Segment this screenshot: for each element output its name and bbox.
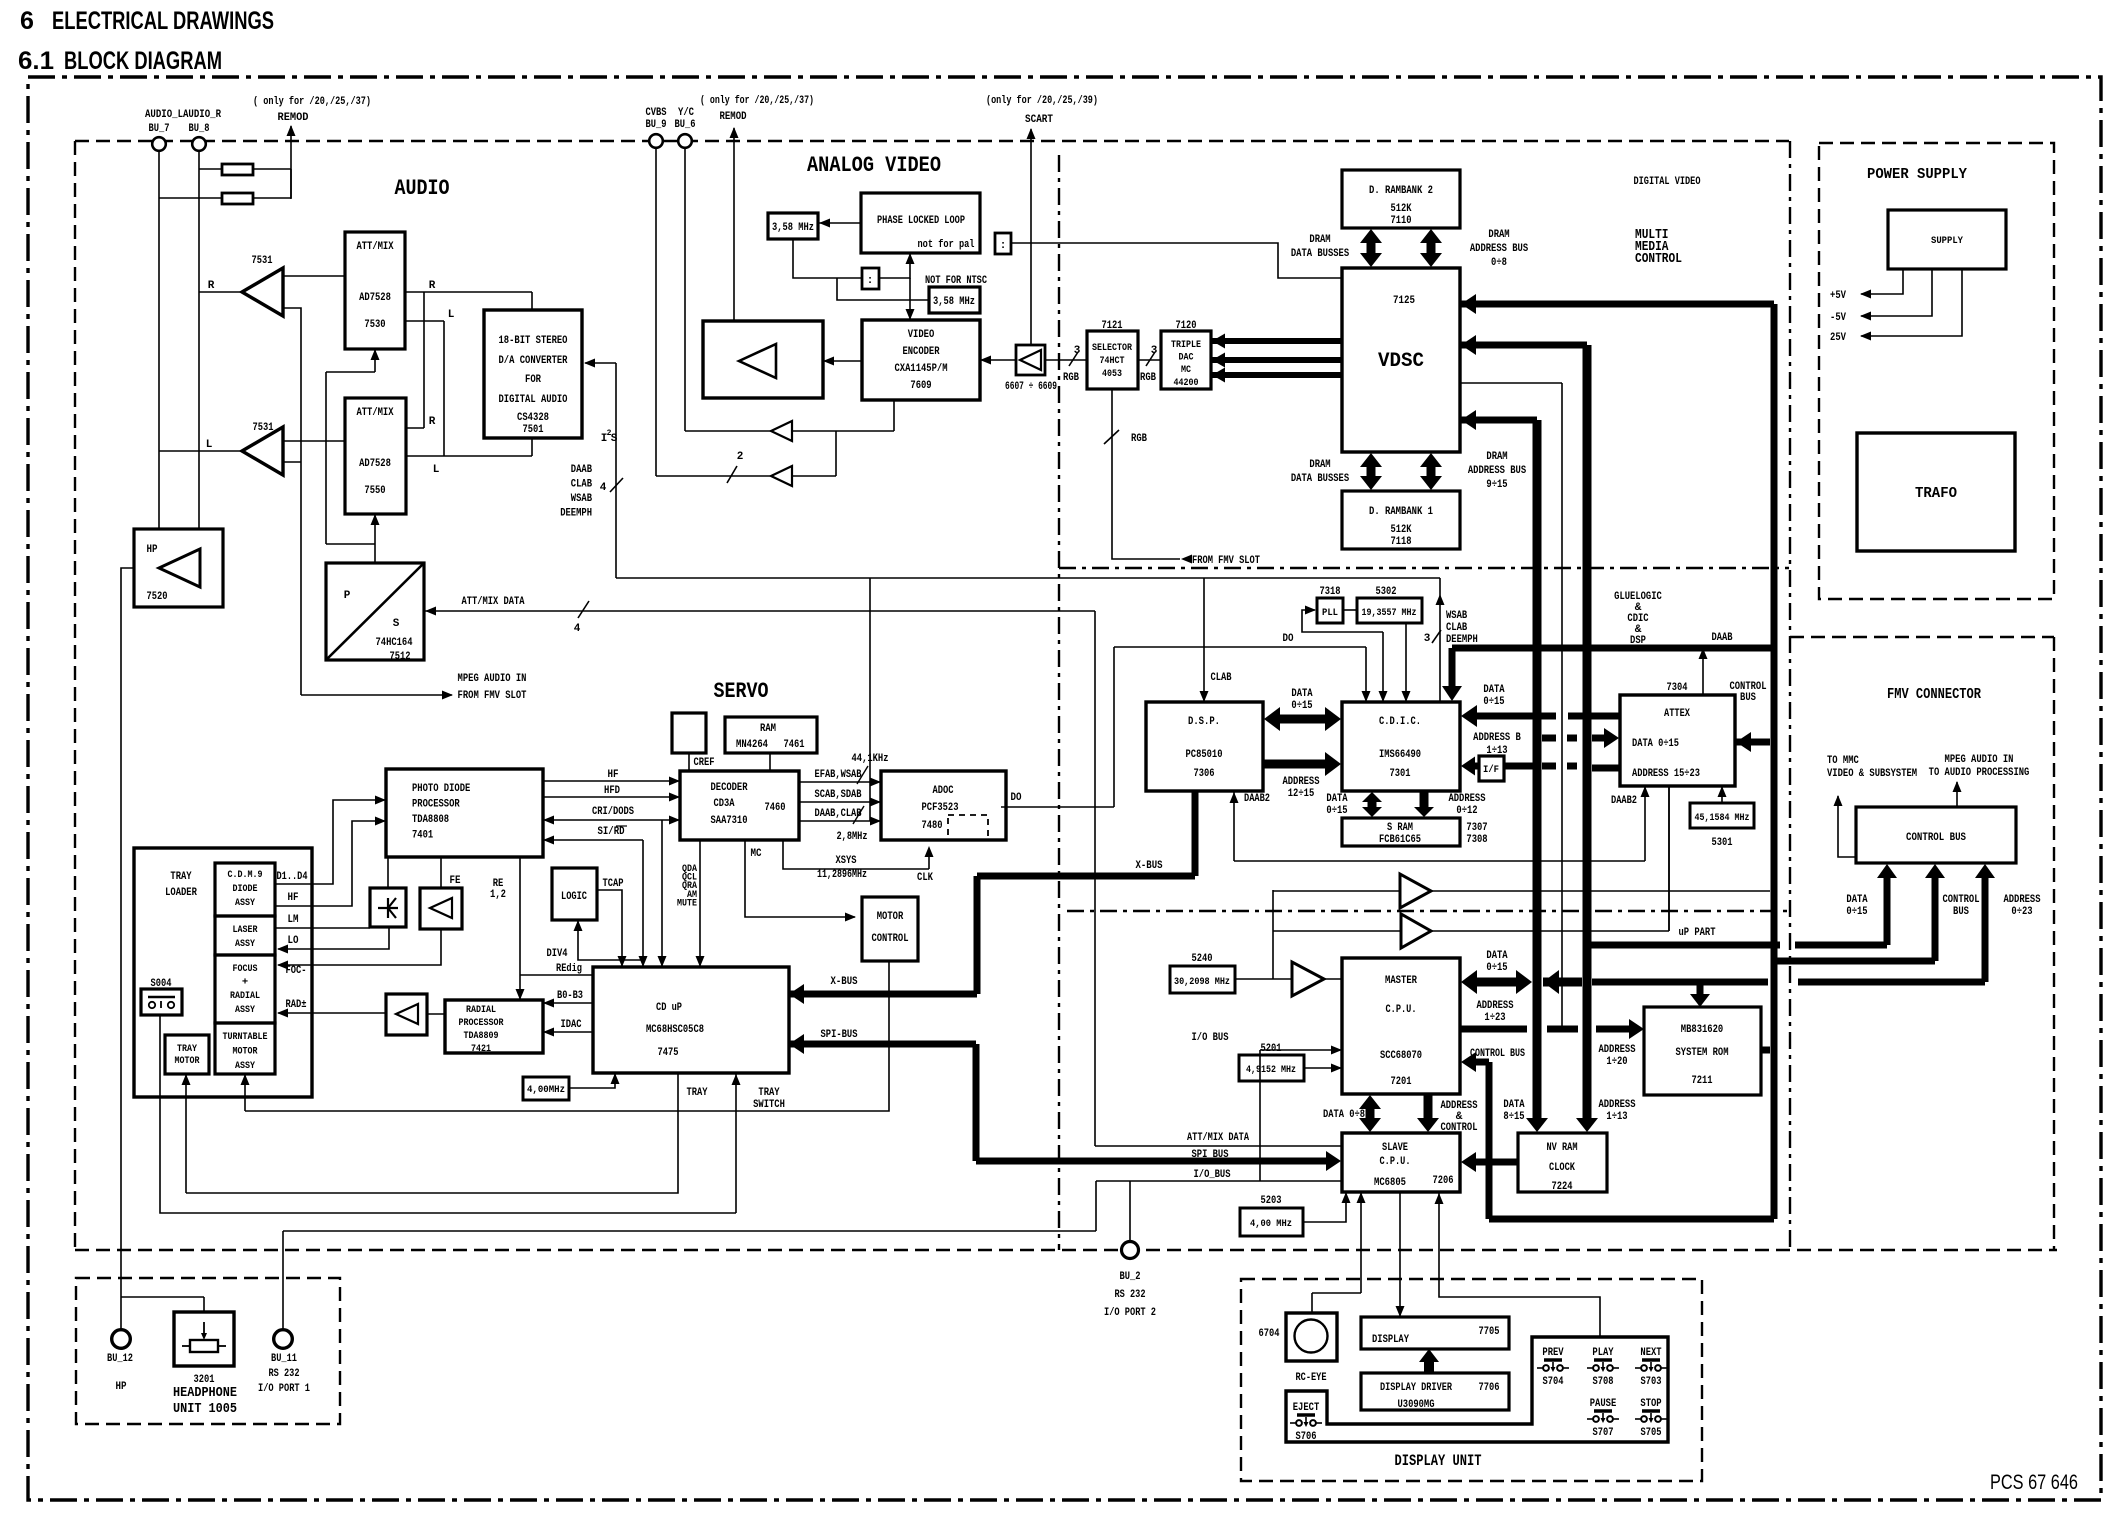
wire DO line: [1001, 633, 1371, 807]
U photo diode processor TDA8808 7401: [386, 769, 543, 857]
U phase locked loop: [861, 193, 980, 253]
svg-text:I/O PORT 2: I/O PORT 2: [1104, 1307, 1156, 1319]
svg-text:TDA8809: TDA8809: [464, 1030, 499, 1042]
wire dash-dot divider uP-part: [1067, 910, 1789, 912]
node label ADDRESS B 1-13: [1473, 732, 1521, 757]
svg-text:11,2896MHz: 11,2896MHz: [817, 869, 867, 881]
photodiode monitor box: [370, 888, 406, 927]
svg-text:S705: S705: [1641, 1427, 1662, 1439]
svg-text:DO: DO: [1011, 792, 1022, 804]
op-amp radial buffer: [386, 994, 427, 1035]
svg-text:7530: 7530: [364, 319, 385, 331]
U S004 switch: [141, 978, 182, 1015]
U D.S.P. PC85010 7306: [1146, 702, 1263, 791]
wire 45MHz to ATTEX: [1718, 786, 1727, 803]
op-amp HP 7520: [134, 529, 223, 607]
svg-text:ENCODER: ENCODER: [902, 346, 939, 358]
U 6607-6609 rgb amp: [1005, 345, 1057, 393]
wire ram to decoder: [769, 753, 771, 771]
wire TCAP: [597, 878, 627, 967]
node title AUDIO: [395, 176, 450, 201]
svg-text:CRI/DODS: CRI/DODS: [592, 806, 634, 818]
U D.RAMBANK2 512K 7110: [1342, 170, 1460, 228]
wire display-unit dashed box: [1241, 1279, 1702, 1481]
U ATT/MIX 7530: [345, 232, 405, 349]
svg-text:S703: S703: [1641, 1376, 1662, 1388]
wire R input: [199, 291, 242, 293]
svg-text:WSAB: WSAB: [571, 493, 593, 505]
wire to ntsc crystal: [837, 278, 929, 300]
svg-text:ADDRESS: ADDRESS: [1282, 776, 1319, 788]
svg-text:7421: 7421: [471, 1043, 491, 1055]
wire BU_8 vertical: [198, 151, 200, 529]
switch S706 EJECT: [1290, 1402, 1322, 1443]
U logic box: [552, 868, 597, 920]
svg-text:ANALOG VIDEO: ANALOG VIDEO: [807, 153, 941, 178]
svg-text:DATA: DATA: [1503, 1099, 1525, 1111]
svg-text:ASSY: ASSY: [235, 938, 256, 950]
node label DATA 0-15 sram: [1326, 793, 1348, 817]
op-amp 7531 L-channel: [206, 422, 283, 475]
wire DIV4 to logic: [547, 920, 644, 960]
svg-text:RC-EYE: RC-EYE: [1296, 1372, 1327, 1384]
bus R4 master address: [1460, 1019, 1644, 1039]
bus CDIC-SRAM data: [1362, 792, 1382, 817]
svg-text:ATTEX: ATTEX: [1664, 708, 1690, 720]
resistor R-lower: [159, 169, 291, 204]
svg-text:MPEG AUDIO IN: MPEG AUDIO IN: [1945, 754, 2014, 766]
svg-text:6.1: 6.1: [18, 47, 54, 75]
node connector BU_9 CVBS: [646, 107, 667, 148]
switch S707 PAUSE: [1587, 1398, 1619, 1439]
svg-text:5302: 5302: [1376, 586, 1397, 598]
switch S704 PREV: [1537, 1347, 1569, 1388]
wire XSYS clk: [783, 840, 934, 884]
svg-text:7460: 7460: [765, 802, 786, 814]
svg-text:8÷15: 8÷15: [1503, 1111, 1525, 1123]
wire 25V: [1830, 269, 1962, 344]
svg-text:MC68HSC05C8: MC68HSC05C8: [646, 1024, 704, 1036]
svg-text:TRAY: TRAY: [687, 1087, 708, 1099]
svg-text:BU_11: BU_11: [271, 1353, 297, 1365]
svg-text:P: P: [344, 590, 351, 602]
wire dash-dot divider analog/digital: [1058, 155, 1060, 1250]
svg-text:25V: 25V: [1830, 332, 1846, 344]
svg-text:D/A CONVERTER: D/A CONVERTER: [499, 355, 568, 367]
svg-text:DRAM: DRAM: [1488, 229, 1510, 241]
svg-text:PREV: PREV: [1542, 1347, 1564, 1359]
svg-text:4: 4: [600, 482, 607, 494]
svg-text:DAAB2: DAAB2: [1611, 795, 1637, 807]
svg-text:NV RAM: NV RAM: [1547, 1142, 1578, 1154]
U 3.58MHz crystal pal: [768, 213, 818, 239]
svg-text:7520: 7520: [147, 591, 168, 603]
svg-text:S004: S004: [151, 978, 172, 990]
svg-text:BLOCK DIAGRAM: BLOCK DIAGRAM: [64, 47, 222, 75]
svg-text:S RAM: S RAM: [1387, 822, 1413, 834]
svg-text:0÷15: 0÷15: [1483, 696, 1505, 708]
bus control bus loop: [1461, 1048, 1774, 1219]
node connector BU_6 Y/C: [675, 107, 696, 148]
node page-title-2: [18, 47, 222, 75]
wire cdic to pll: [1302, 606, 1388, 703]
switch-box polygon: [1286, 1337, 1668, 1442]
op-amp CVBS buffer: [771, 466, 792, 486]
svg-text:R: R: [429, 416, 436, 428]
svg-text:CONTROL BUS: CONTROL BUS: [1470, 1048, 1525, 1060]
svg-text:DATA: DATA: [1291, 688, 1313, 700]
bus master-slave data: [1359, 1095, 1381, 1132]
node connector BU_2 RS232: [1104, 1242, 1156, 1320]
wire to MMC video: [1827, 755, 1917, 857]
svg-text:DAAB: DAAB: [1712, 632, 1733, 644]
svg-text:L: L: [433, 464, 440, 476]
svg-text:I/O BUS: I/O BUS: [1192, 1032, 1229, 1044]
wire FMV dashed border: [1790, 637, 2054, 1250]
svg-text:REdig: REdig: [556, 963, 582, 975]
wire s004 tie: [159, 1014, 161, 1016]
svg-text:ADDRESS: ADDRESS: [1598, 1044, 1635, 1056]
svg-text:DIODE: DIODE: [233, 883, 258, 895]
svg-text:C.P.U.: C.P.U.: [1386, 1004, 1417, 1016]
svg-text:FROM FMV SLOT: FROM FMV SLOT: [1192, 555, 1260, 567]
wire vdsc thin right: [1460, 383, 1562, 1029]
node label DATA 0-8: [1323, 1109, 1365, 1121]
svg-text:3: 3: [1151, 345, 1158, 357]
svg-text:TRAY: TRAY: [177, 1043, 198, 1055]
svg-text:B0-B3: B0-B3: [557, 990, 583, 1002]
svg-text:ATT/MIX: ATT/MIX: [356, 241, 393, 253]
wire 5203 to slave: [1303, 1192, 1351, 1222]
bus CDIC-SRAM address: [1414, 791, 1434, 817]
svg-text:BU_2: BU_2: [1120, 1271, 1141, 1283]
bus VDSC row2 to V2: [1460, 335, 1587, 355]
svg-text:7120: 7120: [1176, 320, 1197, 332]
switch S708 PLAY: [1587, 1347, 1619, 1388]
U VDSC 7125: [1342, 268, 1460, 452]
wire CVBS line: [656, 148, 836, 483]
svg-text:X-BUS: X-BUS: [831, 976, 858, 988]
svg-text:0÷15: 0÷15: [1291, 700, 1313, 712]
wire I/O bus net: [283, 1032, 1342, 1329]
svg-text:CONTROL: CONTROL: [1635, 251, 1682, 267]
wire MC to motor control: [745, 840, 856, 922]
bus R1 data to FMV: [1587, 864, 1897, 945]
wire FOC-: [277, 929, 441, 970]
svg-text:1÷20: 1÷20: [1606, 1056, 1627, 1068]
svg-text:WSAB: WSAB: [1446, 610, 1468, 622]
svg-text:SCART: SCART: [1025, 114, 1053, 126]
svg-text:7201: 7201: [1391, 1076, 1412, 1088]
svg-text:I/O_BUS: I/O_BUS: [1194, 1169, 1231, 1181]
bus I/F to V1: [1504, 766, 1620, 768]
svg-text:FMV CONNECTOR: FMV CONNECTOR: [1887, 686, 1981, 703]
U laser assy: [215, 916, 275, 955]
svg-text:CONTROL BUS: CONTROL BUS: [1906, 832, 1966, 844]
wire ATTEX DAAB riser: [1699, 632, 1733, 695]
svg-text:RS 232: RS 232: [269, 1368, 300, 1380]
bus data arrow into ATTEX: [1542, 728, 1619, 748]
bus master-slave addr: [1417, 1094, 1439, 1132]
wire motor drive: [241, 961, 890, 1111]
svg-text:AD7528: AD7528: [359, 458, 391, 470]
bus vdsc to dac G: [1211, 353, 1342, 368]
svg-text:45,1584 MHz: 45,1584 MHz: [1695, 812, 1750, 824]
wire D1-D4: [275, 796, 386, 885]
U 45.1584MHz 5301: [1690, 803, 1754, 849]
wire LM: [275, 927, 370, 929]
bus vdsc-rambank1 right: [1420, 453, 1442, 490]
svg-text:CD uP: CD uP: [656, 1002, 682, 1014]
node title FMV CONNECTOR: [1887, 686, 1981, 703]
svg-text:7475: 7475: [658, 1047, 679, 1059]
svg-text:6: 6: [20, 7, 34, 35]
svg-text:+: +: [242, 977, 248, 989]
svg-text:TRAY: TRAY: [170, 871, 192, 883]
bus X-BUS: [789, 791, 1195, 1004]
svg-text:MC: MC: [1181, 364, 1192, 376]
node label ADDRESS 1-23: [1476, 1000, 1513, 1024]
svg-text:PCS 67 646: PCS 67 646: [1990, 1471, 2078, 1494]
svg-text:5240: 5240: [1192, 953, 1213, 965]
wire hp junction: [121, 1297, 204, 1312]
bus nvram to slave: [1461, 1152, 1518, 1172]
wire EFAB WSAB: [799, 753, 889, 787]
svg-text:ADDRESS: ADDRESS: [1598, 1099, 1635, 1111]
svg-text:SPI-BUS: SPI-BUS: [821, 1029, 858, 1041]
U display driver U3090MG 7706: [1361, 1373, 1509, 1411]
svg-text:MASTER: MASTER: [1385, 975, 1417, 987]
wire rc-eye to slave: [1312, 1192, 1366, 1313]
node label GLUELOGIC CDIC DSP: [1614, 591, 1662, 647]
resistor R-upper: [199, 164, 291, 175]
svg-text:7224: 7224: [1552, 1181, 1573, 1193]
svg-text:TDA8808: TDA8808: [412, 814, 449, 826]
U ADOC PCF3523 7480: [881, 771, 1006, 840]
svg-text:RGB: RGB: [1131, 433, 1147, 445]
svg-text:PHOTO DIODE: PHOTO DIODE: [412, 783, 471, 795]
svg-text:7501: 7501: [523, 424, 544, 436]
bus vdsc-rambank1 left: [1360, 453, 1382, 490]
U master CPU SCC68070 7201: [1342, 958, 1460, 1094]
wire radial buffer link: [427, 1013, 445, 1015]
svg-text:CVBS: CVBS: [646, 107, 667, 119]
U trafo box: [1857, 433, 2015, 551]
wire MPEG audio out: [1929, 754, 2030, 807]
bus vdsc to dac R: [1211, 334, 1342, 349]
node connector BU_11 RS232: [258, 1330, 310, 1395]
U divider-2: [862, 268, 879, 289]
svg-text:PROCESSOR: PROCESSOR: [459, 1017, 505, 1029]
svg-text:DAAB,CLAB: DAAB,CLAB: [815, 808, 862, 820]
svg-text:4,00 MHz: 4,00 MHz: [1250, 1218, 1292, 1230]
wire +5V: [1830, 269, 1903, 302]
svg-text:DRAM: DRAM: [1309, 459, 1331, 471]
node label ADDRESS 1-13: [1598, 1099, 1635, 1123]
svg-text:7307: 7307: [1466, 822, 1487, 834]
svg-text:SUPPLY: SUPPLY: [1931, 235, 1964, 247]
svg-text:SI/RD: SI/RD: [598, 826, 625, 838]
wire L input: [159, 450, 242, 452]
U 3.58MHz crystal ntsc: [929, 287, 980, 313]
wire slave to keys: [1435, 1192, 1601, 1337]
switch S703 NEXT: [1635, 1347, 1667, 1388]
svg-text:30,2098 MHz: 30,2098 MHz: [1174, 976, 1230, 988]
bus DAAB drop to CDIC: [1442, 648, 1462, 701]
bus controlbus to ATTEX: [1736, 732, 1770, 752]
svg-text:AUDIO_R: AUDIO_R: [183, 109, 221, 121]
svg-text:DATA: DATA: [1326, 793, 1348, 805]
wire REdig: [520, 963, 593, 975]
svg-text:CONTROL: CONTROL: [1942, 894, 1979, 906]
node connector BU_12 HP: [107, 1330, 133, 1393]
wire ATT/MIX7550 to amp: [283, 440, 345, 442]
svg-text:LO: LO: [288, 935, 299, 947]
svg-text:D.S.P.: D.S.P.: [1188, 716, 1220, 728]
op-amp Y/C buffer: [771, 421, 792, 441]
svg-text:DISPLAY DRIVER: DISPLAY DRIVER: [1380, 1382, 1452, 1394]
svg-text:S704: S704: [1543, 1376, 1564, 1388]
svg-text:SCC68070: SCC68070: [1380, 1050, 1422, 1062]
bus V3 control vertical: [1771, 304, 1778, 1219]
node SCART output: [1025, 114, 1053, 345]
svg-text:uP PART: uP PART: [1679, 927, 1716, 939]
wire 6607 to selector: [1045, 345, 1087, 384]
wire SI/RD: [543, 826, 643, 845]
svg-text:DATA: DATA: [1486, 950, 1508, 962]
svg-text:4,00MHz: 4,00MHz: [527, 1085, 565, 1096]
U divider-1: [995, 233, 1011, 254]
node label DRAM DATA BUSSES top: [1291, 234, 1350, 260]
svg-text:44200: 44200: [1174, 377, 1199, 389]
svg-text:CLAB: CLAB: [1446, 622, 1468, 634]
svg-text:S706: S706: [1296, 1431, 1317, 1443]
node title ANALOG VIDEO: [807, 153, 941, 178]
svg-text:ASSY: ASSY: [235, 1004, 256, 1016]
svg-text:RAD±: RAD±: [286, 999, 307, 1011]
wire wsab-clab-deemph: [1424, 578, 1478, 702]
svg-text:U3090MG: U3090MG: [1398, 1399, 1435, 1411]
svg-text:PAUSE: PAUSE: [1590, 1398, 1617, 1410]
U CREF box: [672, 713, 715, 769]
U 4.9152MHz 5201: [1239, 1043, 1304, 1081]
bus DAAB row: [1452, 645, 1774, 652]
svg-text:7110: 7110: [1391, 215, 1412, 227]
bus vdsc to dac B: [1211, 368, 1342, 383]
svg-text:0÷23: 0÷23: [2011, 906, 2033, 918]
svg-text:TRAFO: TRAFO: [1915, 485, 1957, 502]
wire dash-dot divider FMV-slot: [1059, 567, 1789, 569]
svg-text:HFD: HFD: [604, 785, 620, 797]
svg-text:CONTROL: CONTROL: [1440, 1122, 1477, 1134]
wire main dashed box: [75, 141, 2057, 1250]
U tray loader box: [134, 848, 312, 1097]
U radial processor TDA8809 7421: [445, 1000, 543, 1055]
wire IDAC: [543, 1019, 593, 1037]
svg-text:DECODER: DECODER: [711, 782, 748, 794]
wire crystal to cdic: [1402, 623, 1411, 702]
svg-text:7121: 7121: [1102, 320, 1123, 332]
node REMOD audio output: [278, 112, 309, 199]
svg-text:SERVO: SERVO: [714, 679, 769, 704]
svg-text:NOT FOR NTSC: NOT FOR NTSC: [925, 275, 987, 287]
svg-text:19,3557 MHz: 19,3557 MHz: [1362, 607, 1417, 619]
node label ADDRESS 1-20: [1598, 1044, 1635, 1068]
svg-text:TRIPLE: TRIPLE: [1171, 339, 1201, 351]
U RAM MN4264 7461: [725, 717, 817, 753]
wire clock line A: [1273, 890, 1770, 892]
U slave CPU MC6805 7206: [1342, 1133, 1460, 1192]
node title SERVO: [714, 679, 769, 704]
node title DISPLAY UNIT: [1395, 1452, 1482, 1470]
svg-text:ASSY: ASSY: [235, 1060, 256, 1072]
svg-text:74HC164: 74HC164: [376, 637, 413, 649]
U 18-bit stereo D/A CS4328 7501: [484, 310, 582, 438]
svg-text:L: L: [448, 309, 455, 321]
svg-text:MB831620: MB831620: [1681, 1024, 1723, 1036]
node title DIGITAL VIDEO: [1634, 176, 1701, 188]
U video encoder CXA1145 7609: [862, 320, 980, 400]
svg-text:ASSY: ASSY: [235, 897, 256, 909]
wire SCAB SDAB: [799, 789, 881, 807]
svg-text:( only for /20,/25,/37): ( only for /20,/25,/37): [700, 95, 814, 107]
svg-text:D. RAMBANK 1: D. RAMBANK 1: [1369, 506, 1433, 518]
wire FE to PDP: [440, 857, 442, 888]
U motor control: [862, 897, 918, 961]
svg-text:6704: 6704: [1259, 1328, 1280, 1340]
svg-text:C.D.M.9: C.D.M.9: [228, 869, 263, 881]
svg-text:7609: 7609: [910, 380, 931, 392]
op-amp 7531 R-channel: [208, 255, 283, 316]
wire MPEG audio in: [301, 673, 527, 702]
node label PCS 67 646: [1990, 1471, 2078, 1494]
node label ADDRESS CONTROL: [1440, 1100, 1477, 1134]
wire LO: [277, 927, 389, 954]
svg-text:512K: 512K: [1391, 524, 1412, 536]
wire pll-crystal: [1343, 609, 1357, 611]
svg-text:NEXT: NEXT: [1640, 1347, 1662, 1359]
svg-text:4,9152 MHz: 4,9152 MHz: [1246, 1064, 1296, 1076]
svg-text:7706: 7706: [1479, 1382, 1500, 1394]
svg-text:SCAB,SDAB: SCAB,SDAB: [815, 789, 862, 801]
svg-text:MOTOR: MOTOR: [175, 1055, 201, 1067]
svg-text:TO MMC: TO MMC: [1827, 755, 1859, 767]
svg-text:DISPLAY: DISPLAY: [1372, 1334, 1409, 1346]
wire HP output to BU_12: [121, 568, 134, 1329]
svg-text:BUS: BUS: [1953, 906, 1969, 918]
svg-text:DAAB: DAAB: [571, 464, 593, 476]
svg-text:PROCESSOR: PROCESSOR: [412, 799, 460, 811]
op-amp FE buffer: [420, 888, 462, 929]
U FMV control bus box: [1856, 807, 2016, 863]
svg-text:18-BIT STEREO: 18-BIT STEREO: [499, 335, 568, 347]
node label DRAM ADDRESS BUS 0-8: [1470, 229, 1529, 269]
svg-text:2,8MHz: 2,8MHz: [837, 831, 868, 843]
svg-text:SLAVE: SLAVE: [1382, 1142, 1408, 1154]
svg-text::: :: [867, 275, 874, 287]
wire PLL to crystal: [818, 219, 861, 228]
svg-text:FCB61C65: FCB61C65: [1379, 834, 1421, 846]
svg-text:BU_6: BU_6: [675, 119, 696, 131]
svg-text:ATT/MIX: ATT/MIX: [356, 407, 393, 419]
svg-text:MOTOR: MOTOR: [877, 911, 904, 923]
svg-text:DIGITAL AUDIO: DIGITAL AUDIO: [499, 394, 568, 406]
node label FE: [450, 875, 461, 887]
svg-text:VIDEO & SUBSYSTEM: VIDEO & SUBSYSTEM: [1827, 768, 1917, 780]
wire slave to display: [1396, 1192, 1405, 1317]
svg-text:ATT/MIX DATA: ATT/MIX DATA: [1187, 1132, 1249, 1144]
wire DAAB CLAB: [799, 806, 881, 843]
